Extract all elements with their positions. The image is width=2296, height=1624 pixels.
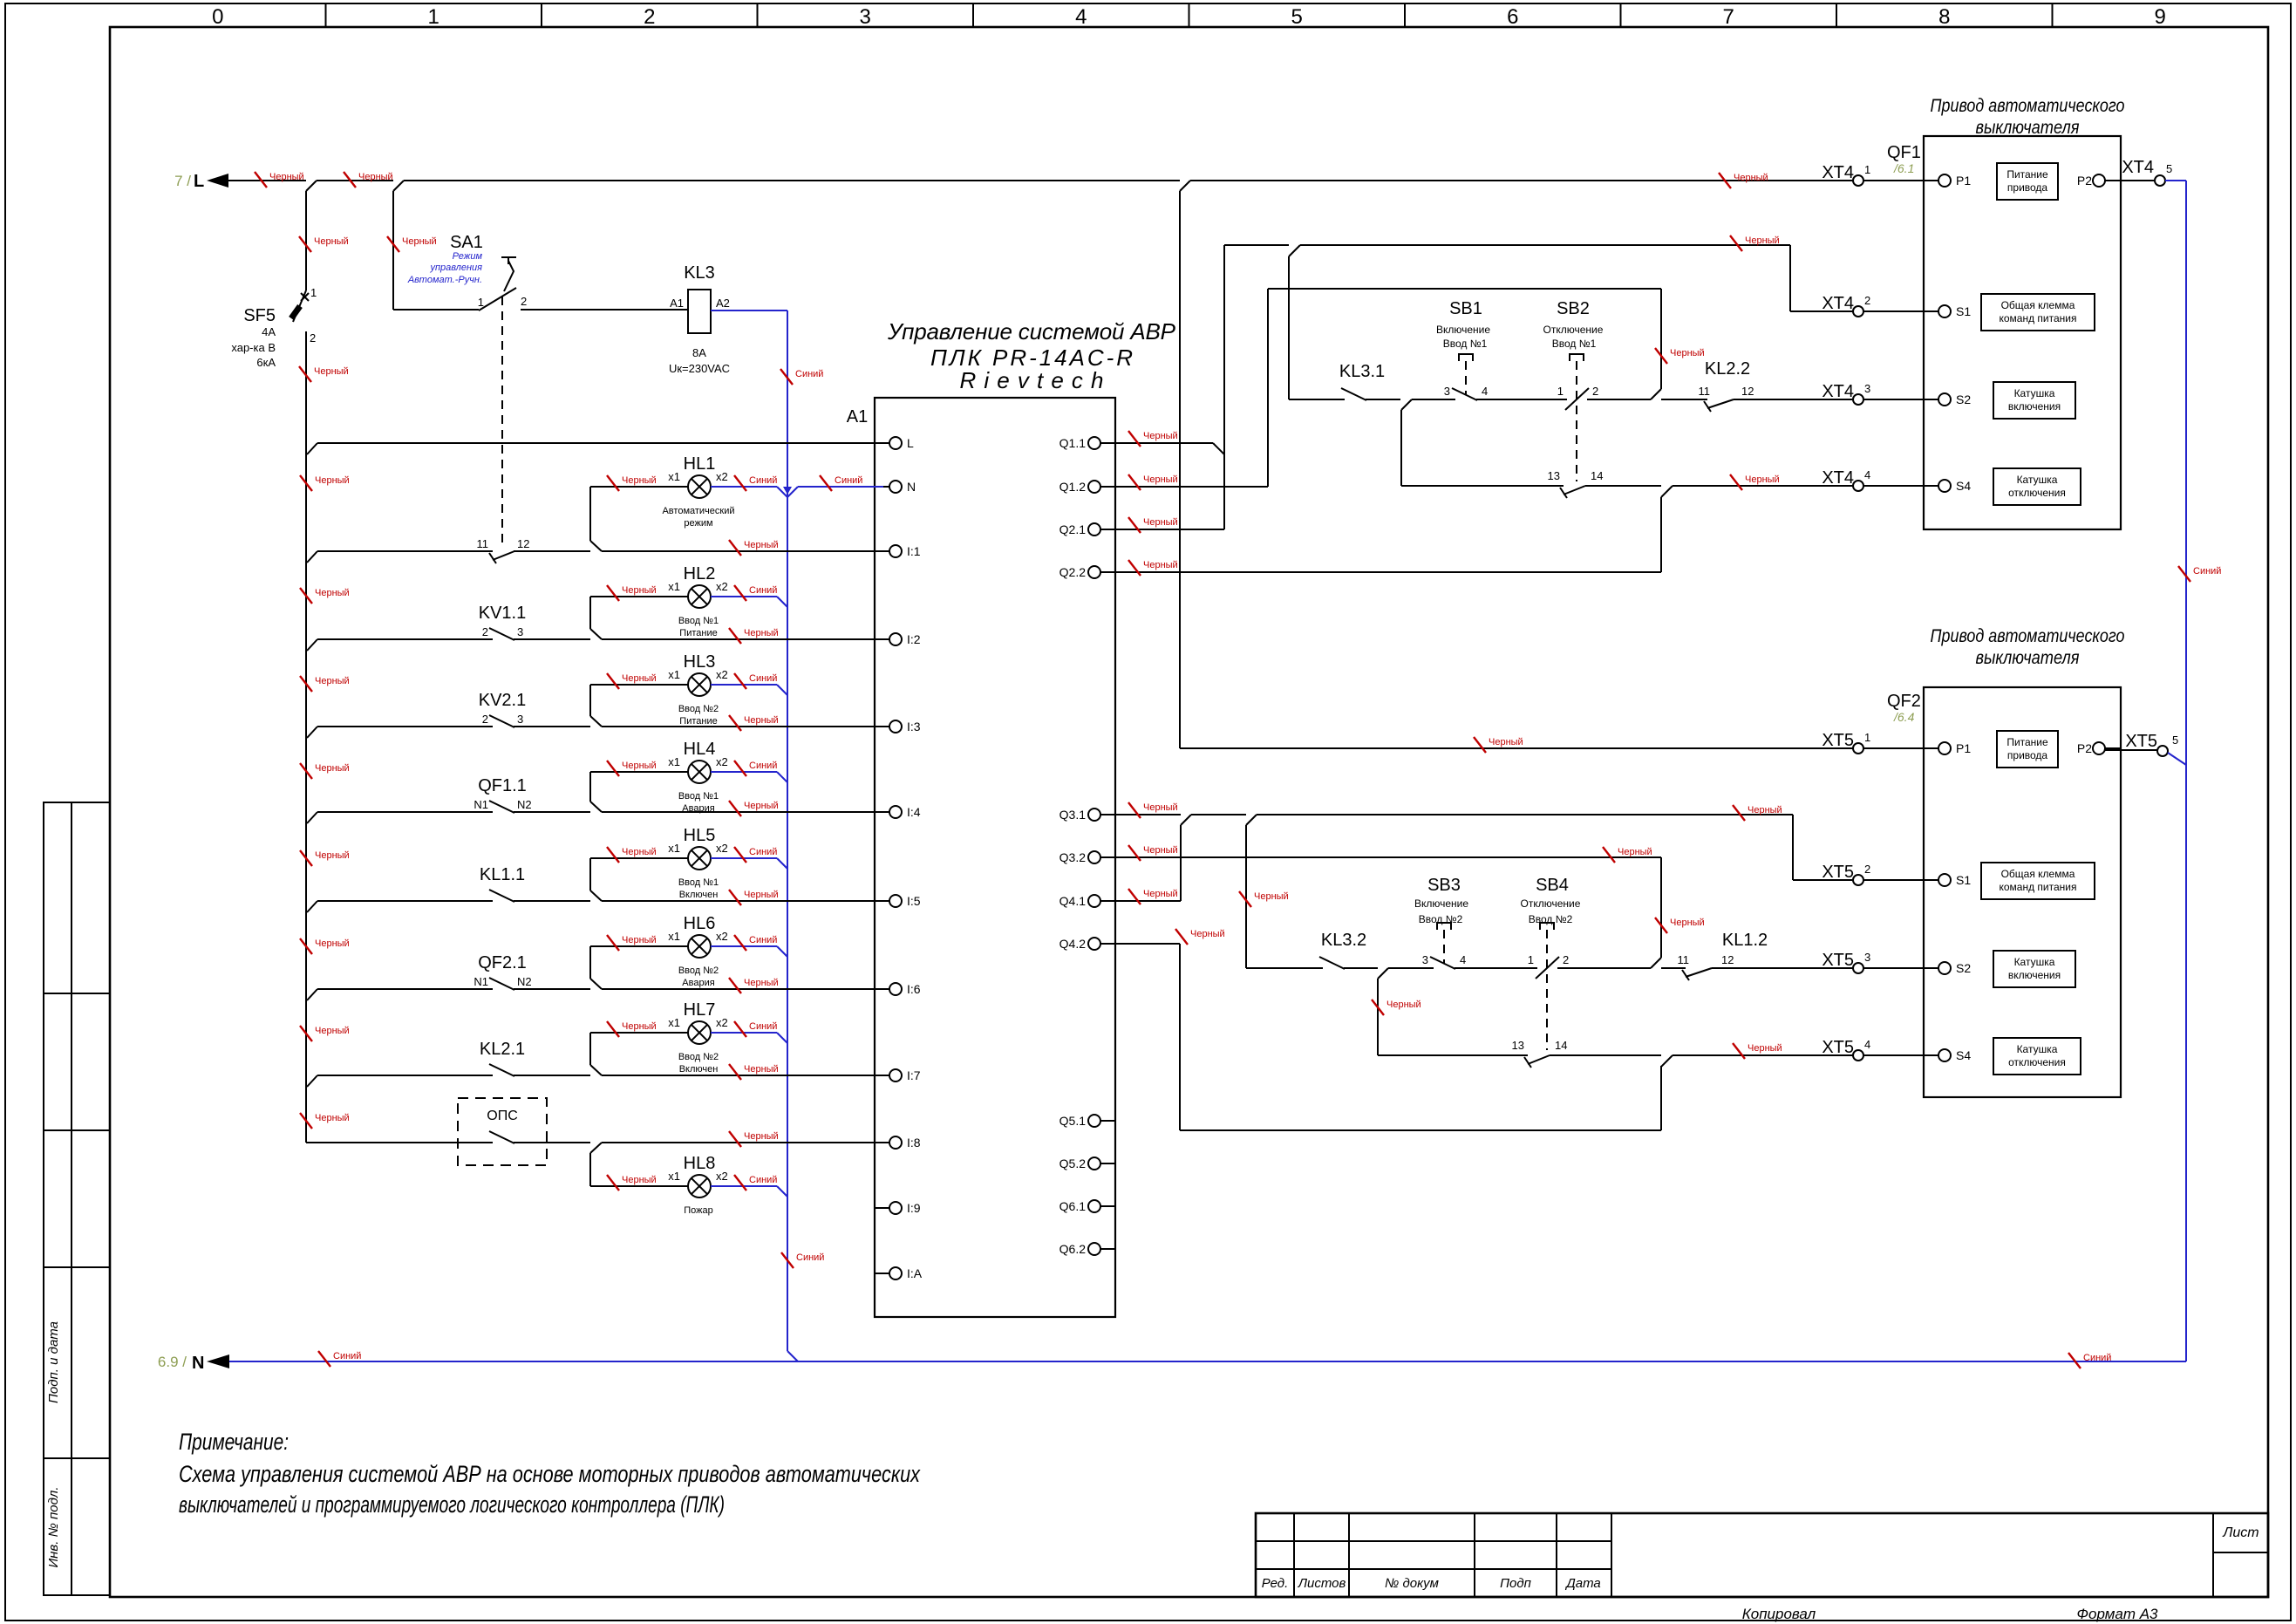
svg-text:QF1: QF1 <box>1887 143 1921 162</box>
svg-text:12: 12 <box>517 537 529 550</box>
svg-text:1: 1 <box>1864 731 1870 744</box>
svg-text:/6.1: /6.1 <box>1893 161 1914 175</box>
wire lamp to N bus <box>711 945 777 947</box>
wire Q2.2 riser <box>1661 486 1673 497</box>
svg-text:A1: A1 <box>847 407 868 426</box>
svg-text:x2: x2 <box>716 668 728 681</box>
svg-text:Синий: Синий <box>749 847 777 857</box>
wire XT5-5 to N riser <box>2168 753 2186 765</box>
svg-text:Черный: Черный <box>622 1175 657 1185</box>
svg-text:QF1.1: QF1.1 <box>478 776 527 795</box>
svg-text:KV2.1: KV2.1 <box>479 691 526 710</box>
svg-text:Синий: Синий <box>749 935 777 945</box>
wire label <box>729 1064 741 1080</box>
svg-text:Черный: Черный <box>314 366 349 377</box>
svg-text:Синий: Синий <box>333 1351 361 1361</box>
left column strip <box>44 802 110 1595</box>
wire label <box>729 890 741 905</box>
wire label <box>344 172 356 188</box>
wire S1 feed line <box>1224 244 1289 246</box>
wire row 13-14 QF1 <box>1400 410 1402 486</box>
PLC pin I:6 <box>875 988 889 990</box>
wire chain2 <box>1246 967 1323 969</box>
lamp HL2 <box>688 585 711 608</box>
svg-text:KL2.1: KL2.1 <box>480 1040 525 1059</box>
PLC pin Q6.1 <box>1100 1205 1115 1207</box>
svg-text:Ввод №1: Ввод №1 <box>678 616 719 626</box>
svg-text:XT4: XT4 <box>1822 468 1854 488</box>
svg-text:KL3: KL3 <box>684 263 715 283</box>
svg-text:S2: S2 <box>1956 392 1971 406</box>
svg-text:Черный: Черный <box>315 763 350 774</box>
svg-text:режим: режим <box>684 518 712 529</box>
svg-text:11: 11 <box>1678 953 1690 966</box>
svg-text:Черный: Черный <box>315 850 350 861</box>
svg-text:XT4: XT4 <box>1822 163 1854 182</box>
svg-text:KL1.1: KL1.1 <box>480 865 525 884</box>
svg-text:выключателя: выключателя <box>1976 648 2080 668</box>
wire label <box>1128 889 1141 904</box>
PLC pin I:3 <box>875 726 889 727</box>
wire label <box>300 588 312 604</box>
svg-text:XT5: XT5 <box>1822 731 1854 750</box>
svg-text:Q6.2: Q6.2 <box>1059 1242 1087 1256</box>
wire SA1 branch <box>392 191 394 310</box>
svg-text:Черный: Черный <box>1190 929 1225 939</box>
svg-text:Формат А3: Формат А3 <box>2076 1606 2158 1622</box>
svg-text:Черный: Черный <box>622 761 657 771</box>
svg-text:Q6.1: Q6.1 <box>1059 1199 1087 1213</box>
wire label <box>1372 1000 1384 1015</box>
svg-text:N2: N2 <box>517 975 532 988</box>
svg-text:Питание: Питание <box>679 716 717 727</box>
svg-text:N2: N2 <box>517 798 532 811</box>
wire lamp branch HL8 <box>589 1153 591 1186</box>
svg-text:Q4.1: Q4.1 <box>1059 894 1087 908</box>
svg-text:Черный: Черный <box>315 588 350 598</box>
svg-text:Питание: Питание <box>2006 168 2048 181</box>
PLC pin Q4.1 <box>1100 900 1115 902</box>
svg-text:Q1.1: Q1.1 <box>1059 436 1087 450</box>
svg-text:выключателя: выключателя <box>1976 118 2080 138</box>
svg-text:Черный: Черный <box>622 935 657 945</box>
svg-text:привода: привода <box>2007 749 2048 761</box>
svg-text:2: 2 <box>482 625 488 638</box>
svg-text:включения: включения <box>2008 969 2061 981</box>
svg-text:x1: x1 <box>668 1170 680 1183</box>
svg-text:SB1: SB1 <box>1449 299 1482 318</box>
svg-text:2: 2 <box>1864 294 1870 307</box>
box Питание привода QF1 <box>1997 163 2058 200</box>
svg-text:Черный: Черный <box>622 585 657 596</box>
box Катушка включения QF2 <box>1993 951 2075 987</box>
svg-text:KL3.2: KL3.2 <box>1321 931 1366 950</box>
svg-text:I:6: I:6 <box>907 982 921 996</box>
svg-text:Черный: Черный <box>1670 918 1705 928</box>
svg-text:3: 3 <box>517 713 523 726</box>
PLC pin Q2.1 <box>1100 529 1115 530</box>
wire XT4-5 to N riser <box>2165 180 2186 181</box>
svg-text:Катушка: Катушка <box>2017 1043 2058 1055</box>
svg-text:6: 6 <box>1507 5 1518 29</box>
svg-text:3: 3 <box>1422 953 1428 966</box>
mechanical link SA1 <box>501 297 503 542</box>
svg-text:Черный: Черный <box>314 236 349 247</box>
svg-text:Подп: Подп <box>1500 1576 1531 1591</box>
svg-text:Схема управления системой АВР: Схема управления системой АВР на основе … <box>179 1461 921 1487</box>
svg-text:Черный: Черный <box>1386 1000 1421 1010</box>
svg-text:5: 5 <box>1291 5 1303 29</box>
svg-text:Черный: Черный <box>315 475 350 486</box>
svg-text:P1: P1 <box>1956 741 1971 755</box>
wire label <box>734 935 746 951</box>
svg-text:5: 5 <box>2172 734 2178 747</box>
svg-text:2: 2 <box>1864 863 1870 876</box>
wire KL3 to N bus <box>711 310 787 311</box>
svg-text:Синий: Синий <box>2193 566 2221 577</box>
box Катушка отключения QF1 <box>1993 468 2081 505</box>
svg-text:I:A: I:A <box>907 1266 923 1280</box>
pin P2 QF2 <box>2093 742 2105 754</box>
wire label <box>1128 431 1141 447</box>
box Общая клемма QF1 <box>1981 294 2095 331</box>
wire label <box>607 673 619 689</box>
PLC pin N <box>875 486 889 488</box>
svg-text:Черный: Черный <box>1143 517 1178 528</box>
svg-text:6.9 /: 6.9 / <box>158 1354 187 1370</box>
svg-text:Q3.2: Q3.2 <box>1059 850 1087 864</box>
wire label <box>607 761 619 776</box>
PLC pin Q3.1 <box>1100 814 1115 815</box>
svg-text:1: 1 <box>478 296 484 309</box>
svg-text:Черный: Черный <box>622 847 657 857</box>
svg-text:Черный: Черный <box>1143 889 1178 899</box>
wire label <box>607 1175 619 1191</box>
svg-text:Черный: Черный <box>744 801 779 811</box>
svg-text:Копировал: Копировал <box>1742 1606 1816 1622</box>
svg-text:выключателей и программируемог: выключателей и программируемого логическ… <box>179 1491 725 1518</box>
svg-text:Ввод №2: Ввод №2 <box>678 704 719 714</box>
wire label <box>1733 1043 1745 1059</box>
wire lamp branch HL7 <box>589 1033 591 1065</box>
svg-text:№ докум: № докум <box>1385 1576 1439 1591</box>
svg-text:S2: S2 <box>1956 961 1971 975</box>
svg-text:N1: N1 <box>474 975 488 988</box>
wire label <box>387 236 399 252</box>
box Катушка отключения QF2 <box>1993 1038 2081 1075</box>
lamp HL5 <box>688 847 711 870</box>
wire label <box>607 475 619 491</box>
svg-text:Синий: Синий <box>835 475 862 486</box>
svg-text:2: 2 <box>644 5 655 29</box>
svg-text:Синий: Синий <box>749 1175 777 1185</box>
svg-text:Синий: Синий <box>749 1021 777 1032</box>
svg-text:4: 4 <box>1075 5 1087 29</box>
wire row 13-14 QF2 <box>1377 979 1379 1055</box>
wire chain1 feed <box>1289 245 1300 256</box>
left rail wire <box>305 191 307 290</box>
pin S1 QF1 <box>1924 310 1938 312</box>
lamp HL7 <box>688 1021 711 1044</box>
title block <box>1256 1513 2268 1597</box>
wire label <box>1175 929 1188 945</box>
svg-text:N1: N1 <box>474 798 488 811</box>
svg-text:HL8: HL8 <box>684 1154 716 1173</box>
svg-text:6кА: 6кА <box>256 356 276 369</box>
svg-text:Черный: Черный <box>1489 737 1523 747</box>
svg-text:Синий: Синий <box>795 369 823 379</box>
pin S1 QF2 <box>1924 879 1938 881</box>
wire L to QF2 P1 <box>1179 191 1181 748</box>
wire label <box>300 676 312 692</box>
PLC pin L <box>875 442 889 444</box>
svg-text:9: 9 <box>2155 5 2166 29</box>
svg-text:I:5: I:5 <box>907 894 921 908</box>
svg-text:S4: S4 <box>1956 479 1971 493</box>
wire label <box>1128 845 1141 861</box>
svg-text:S4: S4 <box>1956 1048 1971 1062</box>
wire input row I:6 <box>307 989 317 1000</box>
wire L top rail <box>228 180 306 181</box>
svg-text:N: N <box>192 1354 204 1373</box>
wire label <box>1239 891 1251 907</box>
svg-text:Q1.2: Q1.2 <box>1059 480 1087 494</box>
svg-text:x2: x2 <box>716 842 728 855</box>
svg-text:x1: x1 <box>668 668 680 681</box>
lamp HL1 <box>688 475 711 498</box>
svg-text:x1: x1 <box>668 842 680 855</box>
PLC pin Q5.1 <box>1100 1120 1115 1122</box>
svg-text:KV1.1: KV1.1 <box>479 604 526 623</box>
PLC pin Q1.2 <box>1100 486 1115 488</box>
wire label <box>299 236 311 252</box>
svg-text:SB3: SB3 <box>1427 876 1461 895</box>
svg-text:Черный: Черный <box>315 1113 350 1123</box>
svg-text:включения: включения <box>2008 400 2061 413</box>
svg-text:12: 12 <box>1741 385 1754 398</box>
svg-text:SF5: SF5 <box>243 306 276 325</box>
wire label <box>1719 173 1731 188</box>
wire label <box>300 1026 312 1041</box>
svg-text:XT4: XT4 <box>1822 294 1854 313</box>
svg-text:/6.4: /6.4 <box>1893 710 1915 724</box>
svg-text:Черный: Черный <box>744 978 779 988</box>
wire label <box>734 1021 746 1037</box>
lamp HL6 <box>688 935 711 958</box>
svg-text:Автомат.-Ручн.: Автомат.-Ручн. <box>407 275 482 285</box>
wire lamp to N bus <box>711 857 777 859</box>
pin P1 QF2 <box>1924 747 1938 749</box>
wire label <box>1128 517 1141 533</box>
svg-text:Uк=230VAC: Uк=230VAC <box>669 362 730 375</box>
wire label <box>300 763 312 779</box>
svg-text:Черный: Черный <box>1143 474 1178 485</box>
wire lamp branch HL2 <box>589 597 591 629</box>
wire label <box>729 715 741 731</box>
svg-text:x1: x1 <box>668 755 680 768</box>
svg-text:A2: A2 <box>716 297 730 310</box>
wire label <box>2178 566 2190 582</box>
svg-text:4: 4 <box>1460 953 1466 966</box>
wire label <box>729 540 741 556</box>
svg-text:Черный: Черный <box>269 172 304 182</box>
svg-text:I:8: I:8 <box>907 1136 921 1150</box>
wire label <box>2068 1353 2081 1368</box>
svg-text:Примечание:: Примечание: <box>179 1429 289 1455</box>
svg-text:Черный: Черный <box>744 628 779 638</box>
svg-text:Листов: Листов <box>1298 1576 1346 1591</box>
svg-text:7 /: 7 / <box>174 173 191 189</box>
svg-text:HL7: HL7 <box>684 1000 716 1020</box>
svg-text:A1: A1 <box>670 297 684 310</box>
svg-text:Черный: Черный <box>315 1026 350 1036</box>
wire chain1 <box>1289 399 1345 400</box>
wire Q4.1 tie <box>1181 815 1191 825</box>
wire label <box>300 1113 312 1129</box>
svg-text:x2: x2 <box>716 470 728 483</box>
wire chain2 feed <box>1246 815 1257 825</box>
svg-text:Черный: Черный <box>1734 173 1768 183</box>
wire label <box>607 847 619 863</box>
wire label <box>1733 805 1745 821</box>
wire label <box>781 1252 794 1268</box>
svg-text:13: 13 <box>1548 469 1560 482</box>
svg-text:1: 1 <box>1557 385 1564 398</box>
svg-text:Ввод №1: Ввод №1 <box>1552 338 1597 350</box>
svg-text:x2: x2 <box>716 930 728 943</box>
breaker SF5 <box>293 290 306 322</box>
svg-text:Ввод №1: Ввод №1 <box>1443 338 1488 350</box>
svg-text:Режим: Режим <box>453 251 483 262</box>
wire lamp to N bus <box>711 684 777 686</box>
svg-text:4А: 4А <box>262 325 276 338</box>
svg-text:2: 2 <box>521 295 527 308</box>
wire lamp branch HL6 <box>589 946 591 979</box>
svg-text:Синий: Синий <box>749 475 777 486</box>
svg-text:Подп. и дата: Подп. и дата <box>46 1321 61 1403</box>
drive block QF2 <box>1924 687 2121 1097</box>
svg-text:Черный: Черный <box>1143 431 1178 441</box>
svg-text:x2: x2 <box>716 755 728 768</box>
wire label <box>734 847 746 863</box>
wire label <box>607 935 619 951</box>
svg-text:Черный: Черный <box>1254 891 1289 902</box>
svg-text:XT5: XT5 <box>1822 951 1854 970</box>
svg-text:SB4: SB4 <box>1536 876 1569 895</box>
svg-text:команд питания: команд питания <box>1999 312 2076 324</box>
contact OPS box <box>458 1098 547 1165</box>
svg-text:KL3.1: KL3.1 <box>1339 362 1385 381</box>
svg-text:Пожар: Пожар <box>684 1205 713 1216</box>
wire label <box>729 628 741 644</box>
wire lamp to N bus <box>711 596 777 597</box>
svg-text:Черный: Черный <box>744 1131 779 1142</box>
box Катушка включения QF1 <box>1993 382 2075 419</box>
svg-text:2: 2 <box>1592 385 1598 398</box>
svg-text:14: 14 <box>1591 469 1603 482</box>
PLC pin Q2.2 <box>1100 571 1115 573</box>
svg-text:5: 5 <box>2166 162 2172 175</box>
svg-text:x1: x1 <box>668 1016 680 1029</box>
svg-text:Черный: Черный <box>1618 847 1652 857</box>
svg-text:Включен: Включен <box>679 1064 719 1075</box>
svg-text:Черный: Черный <box>315 938 350 949</box>
svg-text:P2: P2 <box>2077 741 2092 755</box>
wire label <box>299 366 311 382</box>
wire label <box>820 475 832 491</box>
svg-text:1: 1 <box>310 286 317 299</box>
svg-text:Синий: Синий <box>749 585 777 596</box>
wire Q2.1 riser <box>1100 529 1224 530</box>
PLC A1 box <box>875 398 1115 1317</box>
svg-text:Авария: Авария <box>682 803 714 814</box>
svg-text:I:3: I:3 <box>907 720 921 734</box>
svg-text:8: 8 <box>1938 5 1950 29</box>
svg-text:Катушка: Катушка <box>2017 474 2058 486</box>
wire label <box>734 585 746 601</box>
svg-text:I:4: I:4 <box>907 805 921 819</box>
svg-text:HL6: HL6 <box>684 914 716 933</box>
svg-text:Автоматический: Автоматический <box>662 506 734 516</box>
svg-text:Черный: Черный <box>402 236 437 247</box>
svg-text:Черный: Черный <box>622 1021 657 1032</box>
wire Q3.1 row <box>1100 814 1181 815</box>
svg-text:Включение: Включение <box>1436 324 1490 336</box>
box Общая клемма QF2 <box>1981 863 2095 899</box>
wire lamp to N bus <box>711 1032 777 1034</box>
svg-text:3: 3 <box>1864 951 1870 964</box>
wire input row I:2 <box>307 639 317 651</box>
svg-text:HL5: HL5 <box>684 826 716 845</box>
svg-text:x1: x1 <box>668 580 680 593</box>
svg-text:Ввод №2: Ввод №2 <box>678 966 719 976</box>
svg-text:Общая клемма: Общая клемма <box>2001 868 2075 880</box>
svg-text:7: 7 <box>1723 5 1734 29</box>
junction chain2 <box>1651 958 1661 968</box>
svg-text:I:2: I:2 <box>907 632 921 646</box>
svg-text:P1: P1 <box>1956 174 1971 188</box>
svg-text:XT4: XT4 <box>2122 158 2154 177</box>
lamp HL3 <box>688 673 711 696</box>
wire label <box>1655 348 1667 364</box>
svg-text:Черный: Черный <box>1670 348 1705 358</box>
svg-text:ОПС: ОПС <box>487 1109 518 1123</box>
wire input row I:1 <box>307 551 317 563</box>
wire lamp to N bus <box>711 771 777 773</box>
svg-text:команд питания: команд питания <box>1999 881 2076 893</box>
svg-text:HL3: HL3 <box>684 652 716 672</box>
svg-text:Черный: Черный <box>1748 1043 1782 1054</box>
svg-text:x2: x2 <box>716 1016 728 1029</box>
svg-text:KL2.2: KL2.2 <box>1705 359 1750 379</box>
wire lamp to N bus <box>711 1185 777 1187</box>
svg-text:Q4.2: Q4.2 <box>1059 937 1087 951</box>
pin S4 QF2 <box>1924 1054 1938 1056</box>
pin P2 QF1 <box>2093 174 2105 187</box>
svg-text:1: 1 <box>1864 163 1870 176</box>
wire label <box>1603 847 1615 863</box>
wire lamp branch HL5 <box>589 858 591 890</box>
wire N bus vertical <box>787 310 788 1351</box>
svg-text:Q5.1: Q5.1 <box>1059 1114 1087 1128</box>
svg-text:I:7: I:7 <box>907 1068 921 1082</box>
PLC pin I:7 <box>875 1075 889 1076</box>
wire label <box>1655 918 1667 933</box>
PLC pin I:9 <box>875 1207 889 1209</box>
svg-text:1: 1 <box>428 5 439 29</box>
svg-text:Черный: Черный <box>622 475 657 486</box>
svg-text:8А: 8А <box>692 346 706 359</box>
